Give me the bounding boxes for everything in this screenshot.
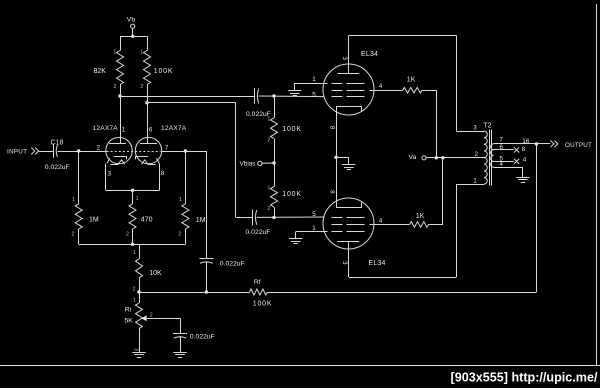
wire feedback cap to rail xyxy=(206,262,208,293)
svg-text:EL34: EL34 xyxy=(361,51,378,58)
wire Vb stem xyxy=(132,28,134,36)
transformer T2 primary winding xyxy=(484,131,487,184)
resistor 1M left xyxy=(75,204,82,229)
pin tick 1 (100K) xyxy=(140,50,143,56)
terminal Vb xyxy=(131,24,135,28)
label EL34 top xyxy=(361,51,378,58)
svg-text:0.022uF: 0.022uF xyxy=(45,164,70,171)
capacitor 0.022uF wiper xyxy=(173,334,187,339)
potentiometer Ri 5K body xyxy=(136,303,143,329)
wire g2 to 1K V1 xyxy=(370,90,403,92)
frame bottom border xyxy=(0,365,600,367)
svg-text:EL34: EL34 xyxy=(369,260,386,267)
svg-text:Vbias: Vbias xyxy=(240,161,256,168)
wire 10K bottom lead xyxy=(139,278,141,292)
wire bias rail lower lead xyxy=(274,207,276,217)
resistor Rf 100K xyxy=(250,289,268,295)
svg-text:1: 1 xyxy=(473,177,477,184)
wire EL34 cathode bus xyxy=(336,112,338,202)
pin tick 1 (bias upper) xyxy=(267,117,270,123)
label Ri xyxy=(125,306,132,313)
svg-text:2: 2 xyxy=(150,312,153,318)
pin 7 label T2 xyxy=(499,137,503,144)
wire secondary gnd stem xyxy=(522,167,524,177)
pin tick 1 (bias lower) xyxy=(267,185,270,191)
wire 470 top lead xyxy=(132,190,134,204)
plate left triode xyxy=(109,96,126,144)
svg-text:1: 1 xyxy=(179,197,182,203)
grid g1 dashes V1 xyxy=(332,96,366,98)
watermark xyxy=(451,371,598,385)
pin 8 label V2 xyxy=(329,190,335,194)
pin tick 2 (100K) xyxy=(140,84,143,90)
wire Ri bottom lead xyxy=(139,329,141,353)
pin 1 label V1 xyxy=(312,76,316,83)
label 0.022uF feedback xyxy=(220,260,245,267)
node feedback left xyxy=(137,290,140,293)
resistor 1M right xyxy=(182,204,189,229)
svg-text:1: 1 xyxy=(133,250,136,256)
pin tick 1 (10K) xyxy=(133,250,136,256)
label 8 tap xyxy=(522,146,526,153)
wire V2 plate riser xyxy=(456,184,458,277)
capacitor C18 xyxy=(54,144,58,157)
wire V1 plate drop xyxy=(456,36,458,132)
wire g2 to 1K V2 xyxy=(370,224,410,226)
pin 5 label V2 xyxy=(312,211,316,218)
wire feedback rail right xyxy=(267,292,536,294)
wire right grid to corner xyxy=(162,151,207,153)
svg-text:3: 3 xyxy=(473,124,477,131)
pin 8 label V1 xyxy=(329,126,335,130)
node bias rail top xyxy=(272,94,275,97)
node left plate xyxy=(118,94,121,97)
svg-text:100K: 100K xyxy=(282,191,302,198)
tube U1 12AX7A left envelope xyxy=(106,137,132,163)
svg-text:Va: Va xyxy=(409,154,417,161)
svg-text:1: 1 xyxy=(113,50,116,56)
wire 100K bottom lead xyxy=(147,85,149,103)
label Va xyxy=(409,154,417,161)
svg-text:INPUT: INPUT xyxy=(7,148,27,155)
svg-text:1: 1 xyxy=(312,76,316,83)
svg-text:1: 1 xyxy=(133,297,136,303)
ground V1 g3 xyxy=(288,91,301,96)
svg-text:7: 7 xyxy=(165,144,169,151)
svg-text:3: 3 xyxy=(133,348,139,351)
wire secondary bottom xyxy=(494,167,523,169)
pin 4 label V2 xyxy=(379,217,383,224)
resistor 1K screen top xyxy=(403,87,422,93)
pin 1 label xyxy=(122,127,126,134)
label 100K bias lower xyxy=(282,191,302,198)
cathode V2 xyxy=(337,202,362,207)
label 0.022uF wiper xyxy=(190,334,215,341)
wire 82K top lead xyxy=(120,36,122,50)
wire 10K top lead xyxy=(139,244,141,259)
svg-text:3: 3 xyxy=(108,170,112,177)
svg-text:4: 4 xyxy=(379,83,383,90)
wire screen rail top xyxy=(436,90,438,158)
wire V1 plate run xyxy=(349,35,457,37)
resistor 1K screen bottom xyxy=(410,222,429,228)
pin 8 label xyxy=(161,170,165,177)
svg-text:2: 2 xyxy=(72,232,75,238)
svg-text:T2: T2 xyxy=(483,123,491,130)
wire V1 g3 gnd stem xyxy=(294,83,296,90)
pin 3 label T2 xyxy=(473,124,477,131)
svg-text:12AX7A: 12AX7A xyxy=(93,125,119,132)
svg-text:1M: 1M xyxy=(89,216,99,223)
pin tick 1 (1M left) xyxy=(72,197,75,203)
wire to bottom cap xyxy=(236,217,253,219)
wire secondary tap 4 xyxy=(494,161,514,163)
label EL34 bottom xyxy=(369,260,386,267)
wire T2 pin1 xyxy=(456,184,484,186)
pin 6 label xyxy=(149,127,153,134)
svg-text:[903x555] http://upic.me/: [903x555] http://upic.me/ xyxy=(451,371,598,385)
no-connect X tap 8 xyxy=(514,147,519,152)
wire 82K bottom lead xyxy=(120,85,122,97)
resistor 100K bias lower xyxy=(271,187,278,207)
svg-text:1: 1 xyxy=(312,225,316,232)
wire screen rail bottom xyxy=(442,158,444,225)
output connector chevrons xyxy=(550,141,557,148)
label 16 tap xyxy=(522,138,530,145)
wire cathode gnd stem xyxy=(348,157,350,164)
input connector chevrons xyxy=(31,148,38,155)
pin tick 1 (82K) xyxy=(113,50,116,56)
svg-text:2: 2 xyxy=(267,138,270,144)
wire secondary tap 8 xyxy=(494,149,514,151)
node 470 rail junction xyxy=(131,243,134,246)
node feedback junction xyxy=(205,290,208,293)
svg-text:10K: 10K xyxy=(149,270,162,277)
ground cathode mid xyxy=(342,165,355,170)
wire feedback cap drop xyxy=(206,151,208,258)
svg-text:2: 2 xyxy=(126,232,129,238)
svg-text:Rf: Rf xyxy=(254,279,261,286)
label Vbias xyxy=(240,161,256,168)
pin 1 label V2 xyxy=(312,225,316,232)
svg-text:0.022uF: 0.022uF xyxy=(220,260,245,267)
pin tick 1 (1M right) xyxy=(179,197,182,203)
cathode right triode xyxy=(136,157,160,165)
plate V2 xyxy=(337,242,359,278)
node cathode box center xyxy=(131,189,134,192)
node Va bottom rail xyxy=(441,156,444,159)
pin 4 label V1 xyxy=(379,83,383,90)
plate V1 xyxy=(337,36,359,74)
grid g2 dashes V2 xyxy=(332,224,367,226)
resistor 10K xyxy=(136,259,143,278)
svg-text:2: 2 xyxy=(178,232,181,238)
node Vbias xyxy=(272,161,275,164)
wire cathode to ground xyxy=(336,157,349,159)
pin tick 2 (bias lower) xyxy=(267,206,270,212)
tube U1 12AX7A right envelope xyxy=(135,137,161,163)
grid dashes 12AX7A xyxy=(107,151,161,153)
wire Vb rail xyxy=(120,36,147,38)
grid g3 dashes V2 xyxy=(332,231,368,233)
pin tick 2 (470) xyxy=(126,232,129,238)
label 100K plate load xyxy=(154,68,174,75)
wire secondary tap 16 xyxy=(494,143,551,145)
label 100K (Rf) xyxy=(253,300,273,307)
ground secondary xyxy=(516,178,529,183)
wire right plate drop xyxy=(235,103,237,218)
node bias rail bottom xyxy=(272,216,275,219)
cathode left triode xyxy=(107,157,127,165)
svg-text:2: 2 xyxy=(97,144,101,151)
svg-text:4: 4 xyxy=(499,161,503,168)
resistor 100K (plate load) xyxy=(144,51,151,85)
label 10K xyxy=(149,270,162,277)
grid g2 dashes V1 xyxy=(332,90,367,92)
pin tick 2 (Ri wiper) xyxy=(150,312,153,318)
wire left plate row xyxy=(120,96,254,98)
svg-text:5: 5 xyxy=(312,211,316,218)
label 12AX7A right xyxy=(161,125,187,132)
pin tick 2 (1M right) xyxy=(178,232,181,238)
svg-text:6: 6 xyxy=(499,144,503,151)
svg-text:1: 1 xyxy=(136,196,139,202)
wire g3 to ground V1 xyxy=(295,83,328,85)
wire 1K to rail V2 xyxy=(429,224,443,226)
ground V2 g3 xyxy=(289,239,302,244)
svg-text:2: 2 xyxy=(475,151,479,158)
svg-text:7: 7 xyxy=(499,137,503,144)
svg-text:8: 8 xyxy=(522,146,526,153)
wire cathode box left xyxy=(105,164,107,191)
resistor 82K xyxy=(117,51,124,85)
pin tick 2 (1M left) xyxy=(72,232,75,238)
svg-text:5: 5 xyxy=(312,91,316,98)
wire 1M-right top lead xyxy=(185,151,187,204)
svg-text:6: 6 xyxy=(149,127,153,134)
pin 3 label xyxy=(108,170,112,177)
label 82K xyxy=(94,68,107,75)
svg-text:Vb: Vb xyxy=(127,16,136,23)
node right grid junction xyxy=(184,149,187,152)
wire 1M-left bottom lead xyxy=(78,229,80,244)
label 1K bottom xyxy=(416,213,425,220)
output label xyxy=(565,142,592,149)
node Vb rail xyxy=(131,35,134,38)
label 0.022uF (C18) xyxy=(45,164,70,171)
pin 2 label T2 xyxy=(475,151,479,158)
svg-text:470: 470 xyxy=(141,216,153,223)
wire cathode box bottom xyxy=(106,190,160,192)
svg-text:2: 2 xyxy=(267,206,270,212)
label 5K xyxy=(125,318,134,325)
svg-text:1: 1 xyxy=(267,117,270,123)
cathode V1 xyxy=(337,107,362,112)
wire 1M-left top lead xyxy=(78,151,80,204)
svg-text:100K: 100K xyxy=(253,300,273,307)
svg-text:8: 8 xyxy=(161,170,165,177)
label 1M right xyxy=(196,217,206,224)
capacitor coupling bottom 0.022uF xyxy=(253,209,257,225)
terminal Va xyxy=(422,156,426,160)
pin tick 1 (Ri) xyxy=(133,297,136,303)
svg-text:Ri: Ri xyxy=(125,306,132,313)
pin 5 label V1 xyxy=(312,91,316,98)
tube V1 EL34 envelope xyxy=(323,64,374,115)
transformer T2 core xyxy=(490,130,492,186)
pin tick 1 (470) xyxy=(136,196,139,202)
node output junction xyxy=(535,142,538,145)
svg-text:1: 1 xyxy=(72,197,75,203)
svg-text:100K: 100K xyxy=(154,68,174,75)
svg-text:12AX7A: 12AX7A xyxy=(161,125,187,132)
wire 100K top lead xyxy=(147,36,149,50)
svg-text:C18: C18 xyxy=(51,139,64,146)
pin 1 label T2 xyxy=(473,177,477,184)
svg-text:2: 2 xyxy=(133,287,136,293)
label 1K top xyxy=(407,77,416,84)
wire right plate row xyxy=(147,102,236,104)
wire C18 to grid pin2 xyxy=(58,151,107,153)
resistor 100K bias upper xyxy=(271,118,278,139)
pin 5 label T2 xyxy=(499,155,503,162)
svg-text:1: 1 xyxy=(267,185,270,191)
svg-text:5K: 5K xyxy=(125,318,134,325)
svg-text:4: 4 xyxy=(523,157,527,164)
svg-text:16: 16 xyxy=(522,138,530,145)
wire cap to EL34 g1 xyxy=(259,95,325,98)
wire V2 plate run xyxy=(349,277,457,279)
label 4 tap xyxy=(523,157,527,164)
pin 2 label xyxy=(97,144,101,151)
pin tick 3 (Ri) xyxy=(133,348,139,351)
ground Ri xyxy=(132,353,145,358)
pin 3 label V2 xyxy=(341,261,347,265)
svg-text:OUTPUT: OUTPUT xyxy=(565,142,592,149)
label T2 xyxy=(483,123,491,130)
capacitor 0.022uF feedback xyxy=(199,259,213,264)
svg-text:1: 1 xyxy=(140,50,143,56)
wire feedback rail left xyxy=(139,292,250,294)
node cathode bus xyxy=(334,156,337,159)
wiper arrow Ri xyxy=(141,315,146,321)
wire Ri wiper xyxy=(147,318,181,333)
capacitor coupling top 0.022uF xyxy=(255,88,259,104)
svg-text:4: 4 xyxy=(379,217,383,224)
pin tick 2 (bias upper) xyxy=(267,138,270,144)
node right plate xyxy=(145,101,148,104)
wire feedback riser xyxy=(536,144,538,292)
wire cathode box right xyxy=(159,164,161,191)
wire input to C18 xyxy=(39,151,54,153)
wire bias rail mid xyxy=(274,139,276,187)
label 100K bias upper xyxy=(282,126,302,133)
input label xyxy=(7,148,27,155)
plate right triode xyxy=(140,103,157,144)
svg-text:82K: 82K xyxy=(94,68,107,75)
svg-text:1K: 1K xyxy=(407,77,416,84)
label Rf xyxy=(254,279,261,286)
wire 470 bottom lead xyxy=(132,229,134,244)
wire Ri top lead xyxy=(139,292,141,303)
pin tick 2 (10K) xyxy=(133,287,136,293)
tube V2 EL34 envelope xyxy=(323,198,374,249)
grid g1 dashes V2 xyxy=(332,217,366,219)
terminal Vbias xyxy=(258,161,262,165)
label 0.022uF bottom coupling xyxy=(246,229,271,236)
node input grid junction xyxy=(77,149,80,152)
wire g3 to ground V2 xyxy=(296,231,328,233)
no-connect X tap 4 xyxy=(514,159,519,164)
label 470 xyxy=(141,216,153,223)
svg-text:2: 2 xyxy=(140,84,143,90)
svg-text:1M: 1M xyxy=(196,217,206,224)
wire 1M-right bottom lead xyxy=(185,229,187,244)
wire bias rail upper lead xyxy=(274,96,276,118)
frame right border xyxy=(596,4,598,365)
wire T2 pin3 xyxy=(456,131,484,133)
pin 6 label T2 xyxy=(499,144,503,151)
grid g3 dashes V1 xyxy=(332,83,368,85)
label 1M left xyxy=(89,216,99,223)
wire cathode bottom rail xyxy=(79,244,186,246)
pin 7 label xyxy=(165,144,169,151)
transformer T2 secondary winding xyxy=(491,144,494,167)
wire 1K to rail V1 xyxy=(422,90,436,92)
wire Vbias to rail xyxy=(262,162,274,164)
ground wiper cap xyxy=(173,353,186,358)
svg-text:0.022uF: 0.022uF xyxy=(190,334,215,341)
svg-text:100K: 100K xyxy=(282,126,302,133)
resistor 470 xyxy=(129,204,136,229)
wire V2 g3 gnd stem xyxy=(295,232,297,239)
pin 4 label T2 xyxy=(499,161,503,168)
svg-text:1: 1 xyxy=(122,127,126,134)
pin 3 label V1 xyxy=(341,57,347,61)
pin tick 2 (82K) xyxy=(113,84,116,90)
wire wiper cap to ground xyxy=(180,336,182,352)
wire cap to EL34 lower g1 xyxy=(257,216,325,218)
label 0.022uF top coupling xyxy=(246,111,271,118)
node Va top rail xyxy=(435,156,438,159)
label C18 xyxy=(51,139,64,146)
label Vb xyxy=(127,16,136,23)
svg-text:2: 2 xyxy=(113,84,116,90)
svg-text:0.022uF: 0.022uF xyxy=(246,229,271,236)
label 12AX7A left xyxy=(93,125,119,132)
svg-text:1K: 1K xyxy=(416,213,425,220)
wire Va to transformer xyxy=(426,157,484,159)
